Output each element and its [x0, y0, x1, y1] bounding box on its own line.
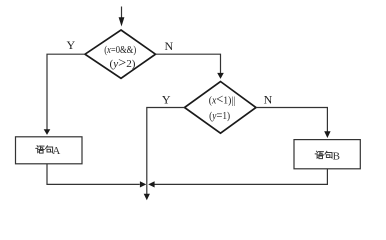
- start arrow wire into decision D1: [121, 7, 123, 19]
- wire D2 true branch down to merge junction: [147, 108, 185, 185]
- exit arrowhead: [144, 194, 150, 201]
- svg-text:Y: Y: [66, 38, 75, 52]
- wire from box A bottom to merge junction: [47, 164, 140, 185]
- arrowhead into box B: [324, 131, 330, 138]
- svg-text:(y>2): (y>2): [110, 55, 137, 70]
- start arrowhead: [119, 17, 125, 26]
- svg-text:B: B: [333, 151, 340, 163]
- svg-text:A: A: [52, 145, 60, 157]
- arrowhead pointing right into junction: [140, 181, 146, 187]
- svg-text:(x<1)||: (x<1)||: [209, 92, 236, 107]
- box B text 语句B: [315, 151, 323, 158]
- arrowhead pointing left into junction: [148, 181, 154, 187]
- arrowhead into D2: [217, 73, 224, 79]
- svg-text:N: N: [264, 92, 273, 106]
- wire D2 false branch to box B: [256, 108, 327, 132]
- process box A: [16, 137, 83, 164]
- process box B: [294, 140, 360, 169]
- decision D2 diamond (x<1)||(y=1): [185, 82, 257, 134]
- box A text 语句A: [36, 146, 44, 153]
- arrowhead into box A: [44, 129, 51, 135]
- svg-text:Y: Y: [162, 93, 171, 107]
- exit wire below merge junction: [146, 184, 148, 194]
- wire D1 false branch to decision D2: [156, 54, 221, 73]
- wire from box B bottom to merge junction: [154, 169, 327, 185]
- wire D1 true branch to box A: [47, 54, 85, 129]
- svg-text:N: N: [164, 39, 173, 53]
- svg-text:(y=1): (y=1): [209, 108, 230, 122]
- decision D1 diamond (x=0&&)(y>2): [85, 30, 156, 78]
